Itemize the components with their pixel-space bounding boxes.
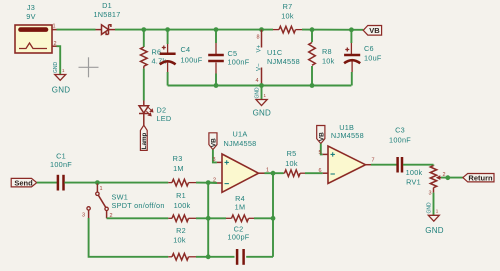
net label VB (U1A) (209, 133, 218, 150)
svg-text:7: 7 (372, 158, 375, 164)
svg-text:VB: VB (319, 132, 326, 141)
svg-text:Send: Send (14, 179, 33, 188)
resistor R1 100k (168, 191, 196, 221)
svg-text:Lamp: Lamp (141, 132, 148, 149)
wire U1A -input (208, 182, 217, 184)
net label VB (U1B) (317, 126, 326, 144)
svg-text:GND: GND (52, 85, 70, 94)
net label Lamp (140, 125, 148, 150)
svg-text:1M: 1M (235, 203, 246, 212)
svg-text:VB: VB (369, 26, 380, 35)
resistor R3 1M (168, 154, 196, 186)
ground (mid, under U1C) (253, 87, 271, 118)
ground (RV1) (425, 202, 443, 235)
svg-text:6: 6 (318, 168, 321, 174)
svg-text:1N5817: 1N5817 (93, 10, 120, 19)
top supply rail (right segment) to VB (302, 29, 363, 31)
svg-text:10k: 10k (322, 57, 335, 66)
wire VB to U1A pin3 (213, 150, 217, 163)
node at switch (95, 180, 100, 185)
J3 pin 2 (52, 45, 57, 47)
capacitor C5 100nF (208, 30, 250, 86)
svg-text:C4: C4 (181, 45, 191, 54)
global label Return (463, 174, 494, 183)
svg-text:R7: R7 (283, 2, 293, 11)
svg-text:2: 2 (54, 41, 57, 47)
svg-text:100k: 100k (406, 168, 423, 177)
svg-text:3: 3 (429, 190, 432, 196)
battery connector J3 (15, 3, 57, 53)
svg-text:NJM4558: NJM4558 (267, 57, 300, 66)
resistor R6 4.7k (141, 30, 167, 69)
capacitor C1 100nF (50, 152, 72, 191)
svg-text:NJM4558: NJM4558 (224, 139, 257, 148)
resistor R5 10k (284, 149, 306, 177)
wire R3 to U1A (196, 182, 217, 184)
ground (battery) (52, 62, 70, 95)
op-amp U1B (318, 123, 374, 183)
wire C3 to RV1 (403, 164, 434, 166)
wire C1 to node (64, 182, 168, 184)
feedback column (U1A output) (272, 173, 274, 257)
svg-text:GND: GND (425, 226, 443, 235)
svg-text:V+: V+ (256, 44, 262, 52)
node: junction dots on bottom rail (214, 83, 315, 88)
svg-text:10uF: 10uF (364, 54, 382, 63)
wire R5 to U1B pin6 (305, 172, 323, 174)
bottom supply rail (168, 85, 352, 87)
svg-text:100k: 100k (174, 201, 191, 210)
svg-text:V−: V− (256, 63, 262, 71)
svg-text:VB: VB (211, 138, 218, 147)
wire to mid ground (261, 86, 263, 100)
svg-text:SPDT on/off/on: SPDT on/off/on (112, 201, 165, 210)
svg-text:9V: 9V (26, 12, 35, 21)
svg-text:100nF: 100nF (389, 136, 411, 145)
capacitor C2 100pF (228, 225, 250, 265)
svg-text:100pF: 100pF (228, 232, 250, 241)
wire SW1 common to R1 (107, 217, 169, 219)
wiper junction (445, 175, 450, 180)
svg-text:100uF: 100uF (181, 56, 203, 65)
svg-text:100nF: 100nF (50, 160, 72, 169)
wire left column to bottom row (89, 218, 169, 257)
svg-text:GND: GND (253, 109, 271, 118)
resistor R8 10k (309, 30, 335, 86)
LED D2 (139, 101, 171, 126)
svg-text:U1A: U1A (233, 130, 248, 139)
svg-text:100nF: 100nF (228, 58, 250, 67)
op-amp U1C power unit (256, 30, 300, 86)
top supply rail (left segment) (115, 29, 273, 31)
global label VB (top right) (363, 26, 381, 36)
diode D1 1N5817 (93, 1, 120, 34)
svg-text:5: 5 (318, 150, 321, 156)
wire R4 to right column (254, 217, 273, 219)
wire U1A output to R5 (265, 172, 284, 174)
svg-text:10k: 10k (281, 12, 294, 21)
wire Send to C1 (37, 182, 57, 184)
svg-text:C3: C3 (395, 126, 405, 135)
svg-text:1M: 1M (173, 164, 184, 173)
svg-text:C6: C6 (364, 44, 374, 53)
svg-text:R3: R3 (173, 154, 183, 163)
J3 pin 1 (52, 29, 57, 31)
svg-text:NJM4558: NJM4558 (331, 131, 364, 140)
svg-text:1: 1 (100, 186, 103, 192)
wire J3 pin1 to D1 (57, 29, 96, 31)
wire J3 pin2 to ground (57, 46, 61, 74)
wire C2 to right column (246, 256, 273, 258)
resistor R7 10k (series in rail) (273, 2, 302, 33)
node: junction dots on top rail (141, 27, 353, 32)
svg-text:D1: D1 (102, 1, 112, 10)
wire R2 to C2 (196, 256, 235, 258)
capacitor C6 10uF (polarized) (344, 30, 382, 86)
sheet crosshair marker (79, 57, 99, 77)
node column (inverting input) (207, 183, 209, 257)
wire RV1 to ground (433, 193, 435, 216)
svg-text:8: 8 (257, 35, 260, 41)
svg-text:3: 3 (82, 213, 85, 219)
svg-text:4: 4 (256, 78, 259, 84)
wire wiper to Return (441, 177, 463, 179)
switch SW1 SPDT (82, 184, 165, 220)
capacitor C4 100uF (polarized) (160, 30, 203, 86)
svg-text:10k: 10k (173, 236, 186, 245)
wire U1B output to C3 (371, 164, 397, 166)
svg-text:1: 1 (52, 24, 55, 30)
svg-text:Return: Return (468, 174, 493, 183)
resistor R4 1M (226, 194, 254, 222)
global label Send (11, 178, 37, 187)
capacitor C3 100nF (389, 126, 411, 173)
svg-text:10k: 10k (285, 159, 298, 168)
wire VB to U1B pin5 (321, 144, 323, 155)
svg-text:3: 3 (212, 157, 215, 163)
svg-text:R2: R2 (176, 226, 186, 235)
svg-text:R1: R1 (176, 191, 186, 200)
svg-text:R8: R8 (322, 47, 332, 56)
potentiometer RV1 100k (406, 165, 446, 197)
wire R1 to node column (196, 217, 226, 219)
wire R6 to LED (143, 69, 145, 101)
svg-text:R5: R5 (287, 149, 297, 158)
svg-text:GND: GND (427, 202, 433, 214)
svg-text:GND: GND (53, 62, 59, 74)
svg-text:R6: R6 (152, 48, 162, 57)
svg-text:RV1: RV1 (406, 177, 421, 186)
svg-text:J3: J3 (27, 3, 35, 12)
svg-text:GND: GND (254, 87, 260, 99)
op-amp U1A (212, 130, 269, 193)
svg-text:LED: LED (157, 114, 172, 123)
svg-text:C5: C5 (228, 49, 238, 58)
resistor R2 10k (168, 226, 196, 260)
